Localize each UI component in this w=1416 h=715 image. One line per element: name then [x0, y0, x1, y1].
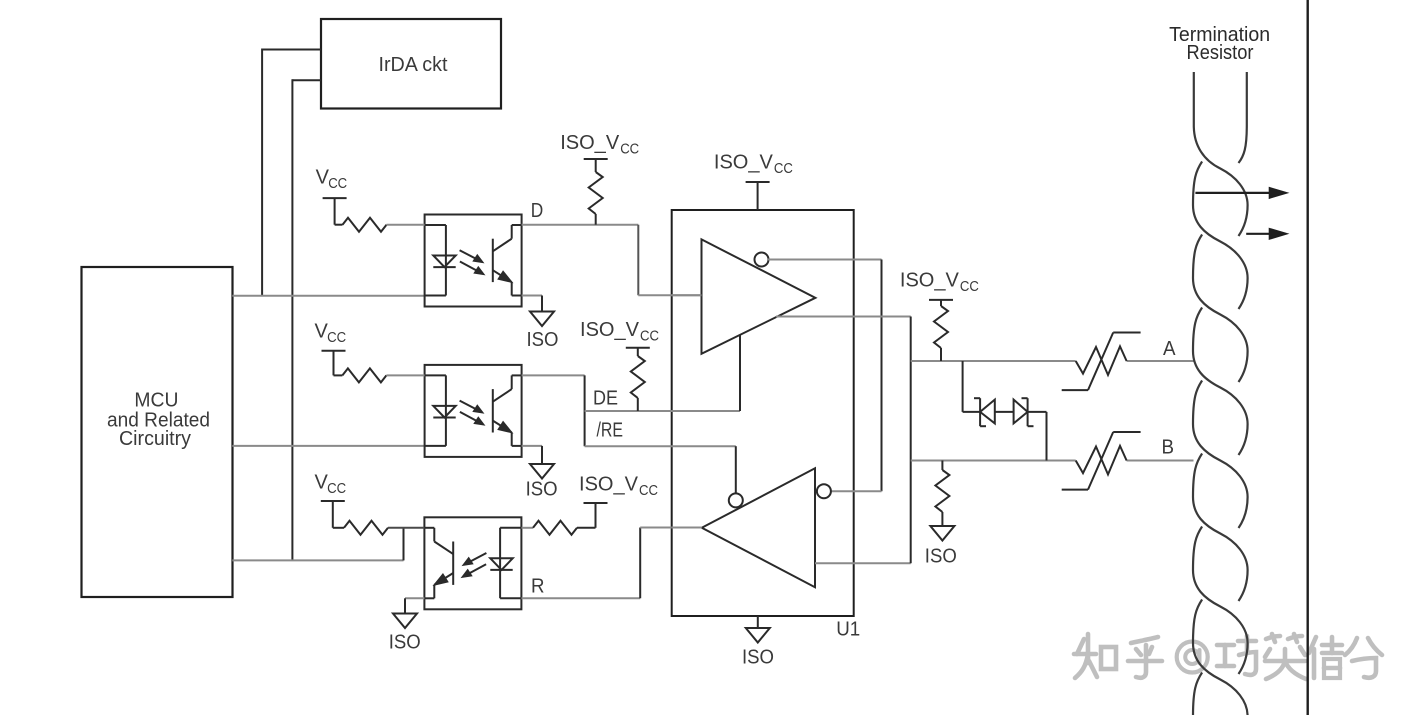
svg-text:ISO: ISO [527, 329, 559, 351]
svg-text:ISO: ISO [526, 479, 558, 501]
svg-text:ISO_V: ISO_V [560, 132, 620, 154]
svg-text:CC: CC [774, 160, 793, 177]
svg-text:B: B [1162, 437, 1175, 459]
svg-text:CC: CC [328, 175, 347, 192]
svg-text:CC: CC [327, 329, 346, 346]
svg-text:CC: CC [327, 480, 346, 497]
svg-text:/RE: /RE [597, 420, 624, 442]
svg-text:CC: CC [620, 141, 639, 158]
svg-text:ISO: ISO [389, 631, 421, 653]
svg-text:DE: DE [593, 388, 618, 410]
svg-text:R: R [531, 576, 545, 598]
svg-text:IrDA ckt: IrDA ckt [379, 54, 448, 76]
svg-text:ISO_V: ISO_V [714, 152, 774, 174]
svg-text:ISO: ISO [742, 647, 774, 669]
svg-text:D: D [531, 200, 544, 222]
svg-text:CC: CC [640, 328, 659, 345]
svg-text:A: A [1163, 338, 1176, 360]
svg-text:MCU: MCU [134, 389, 178, 411]
svg-text:ISO: ISO [925, 546, 957, 568]
svg-text:ISO_V: ISO_V [580, 319, 640, 341]
svg-text:CC: CC [639, 482, 658, 499]
svg-text:CC: CC [960, 278, 979, 295]
svg-text:U1: U1 [836, 619, 860, 641]
svg-text:Circuitry: Circuitry [119, 428, 191, 450]
svg-text:Resistor: Resistor [1187, 42, 1254, 64]
svg-text:ISO_V: ISO_V [579, 474, 639, 496]
svg-text:ISO_V: ISO_V [900, 269, 960, 291]
